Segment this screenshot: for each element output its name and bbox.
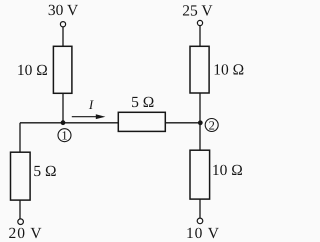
resistor 5ohm (bottom left) bbox=[11, 152, 31, 200]
svg-text:20 V: 20 V bbox=[9, 225, 43, 242]
svg-text:25 V: 25 V bbox=[182, 3, 213, 20]
svg-text:5 Ω: 5 Ω bbox=[33, 163, 56, 180]
svg-text:1: 1 bbox=[61, 129, 67, 143]
wire: 5ohm resistor to 20V terminal bbox=[19, 200, 21, 219]
node 1 label bbox=[58, 129, 71, 143]
svg-text:10 Ω: 10 Ω bbox=[17, 62, 48, 79]
terminal 20V bbox=[18, 219, 24, 225]
wire: 25V terminal to R4 top bbox=[199, 26, 201, 47]
current arrow I bbox=[72, 114, 106, 119]
svg-text:10 Ω: 10 Ω bbox=[212, 162, 243, 179]
wire: left drop to 5ohm resistor bbox=[19, 123, 21, 152]
svg-text:10 V: 10 V bbox=[186, 225, 220, 242]
wire: mid 5ohm resistor to node 2 bbox=[165, 122, 200, 124]
svg-text:I: I bbox=[88, 97, 94, 112]
wire: 30V terminal to R1 top bbox=[62, 27, 64, 47]
wire: main horizontal node 1 branch bbox=[20, 122, 118, 124]
resistor 5ohm (middle) bbox=[118, 112, 165, 131]
node 2 junction bbox=[198, 120, 203, 125]
terminal 10V bbox=[197, 218, 203, 224]
wire: R1 bottom to node 1 bbox=[62, 93, 64, 123]
node 2 label bbox=[205, 118, 218, 132]
resistor R4 10ohm (top right) bbox=[190, 46, 209, 93]
resistor R1 10ohm (top left) bbox=[53, 46, 72, 93]
resistor R5 10ohm (bottom right) bbox=[190, 150, 210, 199]
svg-text:2: 2 bbox=[209, 118, 215, 132]
wire: R4 bottom through node 2 to R5 top bbox=[199, 93, 201, 150]
svg-text:30 V: 30 V bbox=[48, 2, 79, 19]
svg-text:10 Ω: 10 Ω bbox=[213, 62, 244, 79]
wire: R5 bottom to 10V terminal bbox=[199, 199, 201, 218]
svg-text:5 Ω: 5 Ω bbox=[131, 94, 154, 111]
terminal 25V bbox=[197, 20, 202, 25]
terminal 30V bbox=[60, 22, 65, 27]
node 1 junction bbox=[61, 120, 66, 125]
